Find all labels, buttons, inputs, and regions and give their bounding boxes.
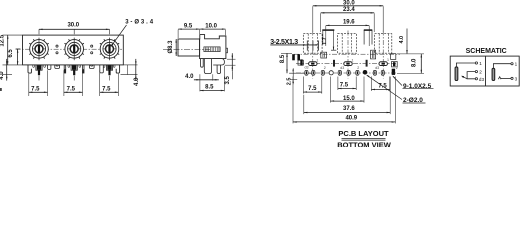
side view right notch [226, 48, 228, 53]
front notched tab B3 [89, 65, 94, 69]
front pin jack2 [71, 65, 77, 70]
side view mounting foot [213, 59, 224, 65]
pcb layout row C center line [296, 72, 397, 74]
svg-text:BOTTOM VIEW: BOTTOM VIEW [337, 140, 392, 147]
svg-text:1: 1 [387, 58, 389, 62]
pcb layout row C line [289, 72, 312, 74]
dimension 7.5 pcb x3 [303, 83, 389, 93]
dimension 9.5 and 10.0 side [178, 23, 225, 38]
svg-text:2: 2 [324, 66, 326, 70]
svg-text:d3: d3 [479, 77, 485, 82]
svg-text:4.0: 4.0 [399, 36, 405, 44]
pcb layout center lines vertical [313, 31, 383, 79]
svg-text:37.6: 37.6 [343, 106, 355, 112]
svg-text:3-2.5X1.3: 3-2.5X1.3 [270, 39, 298, 46]
svg-text:d3: d3 [305, 66, 309, 70]
left edge pads [292, 54, 295, 60]
dimension 40.9 pcb [293, 121, 395, 123]
dimension 4.0 side [185, 74, 219, 91]
svg-text:9.5: 9.5 [184, 23, 193, 29]
dashed jack outline 3 [375, 34, 392, 54]
svg-text:30.0: 30.0 [67, 23, 79, 29]
jack J3 front circles [100, 38, 119, 61]
svg-text:23.4: 23.4 [343, 7, 355, 13]
svg-text:7.5: 7.5 [31, 87, 40, 93]
front extension lines to 7.5 dims [29, 70, 119, 96]
dimension 8.0 pcb right [397, 54, 424, 74]
dimension 8.5 side [200, 66, 225, 92]
pcb bottom extension lines [293, 77, 395, 124]
colon rivets between jacks [56, 45, 93, 54]
svg-text:1.7: 1.7 [322, 37, 328, 45]
front view horizontal center line [16, 48, 122, 50]
svg-text:4.0: 4.0 [0, 71, 5, 80]
schematic right cell sleeve contact [492, 68, 495, 80]
side view contact receptacle [204, 47, 220, 52]
pin number tiny labels [305, 58, 398, 70]
svg-text:4.0: 4.0 [134, 77, 140, 86]
dimension 15.0 pcb [331, 100, 365, 102]
svg-text:7.5: 7.5 [340, 83, 349, 89]
side view center line [163, 48, 210, 50]
svg-text:2: 2 [357, 66, 359, 70]
schematic left terminals [475, 62, 477, 80]
svg-text:6.5: 6.5 [8, 49, 14, 58]
jack J2 front circles [65, 38, 84, 61]
pcb layout row B center line [296, 63, 397, 65]
svg-text:2: 2 [396, 66, 398, 70]
svg-text:2: 2 [479, 70, 482, 75]
front pin jack1 [36, 65, 42, 70]
jack J1 front circles [29, 38, 48, 61]
svg-text:PC.B LAYOUT: PC.B LAYOUT [338, 129, 389, 138]
front thin pin B2 [83, 65, 85, 73]
svg-text:3.5: 3.5 [225, 75, 231, 84]
schematic right terminals [511, 63, 513, 80]
svg-text:7.5: 7.5 [67, 87, 76, 93]
slot at jack1 with 2.5x1.3 dim [270, 41, 318, 51]
svg-text:12.5: 12.5 [0, 34, 6, 46]
dimension 7.5 front x3 [29, 87, 119, 93]
dimension 8.5 pcb left [280, 53, 292, 73]
dimension 2.5 pcb left [287, 68, 298, 85]
dimension 4.0 front right [121, 59, 141, 86]
label 2-phi2.0 with leader [366, 75, 426, 105]
dimension 19.6 pcb [326, 20, 369, 47]
row B tick marks [334, 60, 367, 67]
side view barrel [178, 39, 200, 56]
svg-text:1: 1 [515, 62, 518, 67]
dashed jack outline 1 [303, 34, 322, 54]
svg-text:40.9: 40.9 [345, 116, 357, 122]
svg-text:7.5: 7.5 [308, 86, 317, 92]
shield strip between jacks 2-3 [364, 30, 373, 44]
pcb layout row A center line [294, 53, 400, 55]
front view body [23, 35, 124, 65]
svg-text:4.0: 4.0 [185, 74, 194, 80]
side view body [200, 35, 226, 59]
svg-text:10.0: 10.0 [205, 23, 217, 29]
right edge pads [391, 54, 398, 75]
front bottom edge stubs [33, 65, 115, 67]
svg-text:8.0: 8.0 [411, 58, 417, 67]
front pin jack3 [106, 65, 112, 70]
dimension 37.6 pcb [304, 112, 390, 114]
dimension 1.7 pcb [322, 30, 337, 50]
label 3-phi3.4 with leader [111, 19, 155, 47]
dimension 30.0 pcb [313, 0, 383, 32]
pad square rowA right [371, 50, 376, 59]
row C pads - nine 1.0x2.5 slots and two phi2.0 holes [305, 70, 385, 75]
svg-text:3: 3 [515, 76, 518, 81]
svg-text:15.0: 15.0 [343, 96, 355, 102]
svg-text:19.6: 19.6 [343, 20, 355, 26]
dimension 6.5 front left [8, 49, 21, 65]
svg-text:8.5: 8.5 [280, 54, 286, 63]
svg-text:8.5: 8.5 [205, 85, 214, 91]
svg-text:1: 1 [316, 59, 318, 63]
dimension 12.5 front left [0, 34, 22, 65]
front small hook tab A1 [48, 65, 51, 70]
row B stadium pads [298, 59, 387, 65]
svg-text:1: 1 [479, 61, 482, 66]
dimension 3.5 side [225, 53, 236, 84]
pad square rowA left [321, 52, 327, 58]
dimension 4.0 pcb right [399, 29, 408, 54]
front notched tab B1 [55, 65, 60, 69]
dimension 30.0 front [39, 23, 110, 35]
svg-text:3-Ø3.4: 3-Ø3.4 [125, 19, 155, 25]
svg-text:SCHEMATIC: SCHEMATIC [466, 48, 507, 55]
schematic left cell wiring [456, 63, 475, 79]
dimension 23.4 pcb [321, 7, 375, 32]
svg-text:1: 1 [352, 59, 354, 63]
label 9-1.0X2.5 with leader [392, 76, 433, 91]
front small hook tab A3 [100, 65, 104, 73]
svg-text:d3: d3 [340, 66, 344, 70]
side view leg stub [201, 59, 204, 68]
schematic left cell sleeve contact [455, 67, 458, 81]
side view lower leg under foot [217, 65, 221, 74]
dashed jack outline 2 [338, 34, 357, 54]
schematic box [450, 56, 519, 86]
svg-text:d3: d3 [375, 66, 379, 70]
side view U-shaped leg [204, 59, 211, 74]
schematic left pin labels [479, 61, 485, 82]
svg-text:7.5: 7.5 [102, 87, 111, 93]
page edge artifact left [0, 88, 2, 91]
schematic right pin labels [515, 62, 518, 82]
front left mounting hook [28, 65, 31, 73]
svg-text:30.0: 30.0 [343, 0, 355, 6]
front right mounting hook [116, 65, 119, 73]
svg-text:Ø8.3: Ø8.3 [168, 40, 174, 54]
dimension 4.0 front left [0, 59, 12, 81]
svg-text:2.5: 2.5 [287, 78, 293, 86]
front thin pin A2 [64, 65, 66, 73]
title PC.B LAYOUT [338, 129, 389, 140]
schematic right cell wiring [493, 64, 511, 79]
dimension phi8.3 [168, 39, 177, 56]
shield strip between jacks 1-2 [322, 30, 334, 44]
